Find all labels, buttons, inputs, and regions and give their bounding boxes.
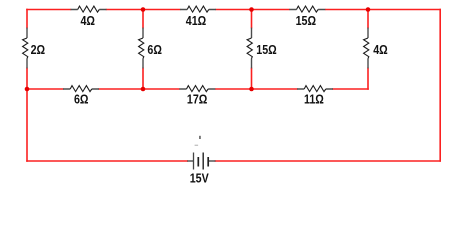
resistor R6 17ohm (middle center) [179,86,215,107]
wire left vertical lower [26,68,28,89]
svg-text:11Ω: 11Ω [304,93,324,107]
wire branch x143 lower [142,68,144,89]
svg-text:41Ω: 41Ω [186,14,206,28]
battery minus mark [195,145,199,146]
node D (mid x143) [141,87,146,92]
svg-text:15V: 15V [190,172,209,186]
wire top-left to R1 [27,9,70,11]
resistor R9 15ohm (branch x251.5) [247,28,277,69]
resistor R7 11ohm (middle right) [297,86,333,107]
svg-text:4Ω: 4Ω [80,14,95,28]
wire bottom left to battery [27,160,187,162]
battery V1 15V [187,153,215,170]
battery value label 15V [190,172,209,186]
resistor R1 4ohm (top left) [71,6,107,28]
wire left vertical to bottom [26,89,28,161]
svg-text:17Ω: 17Ω [187,93,207,107]
wire R6 to node E [216,88,297,90]
svg-text:15Ω: 15Ω [296,14,316,28]
wire branch x368 lower [367,68,369,89]
node C (mid left) [25,87,30,92]
svg-text:6Ω: 6Ω [74,93,89,107]
wire left vertical upper [26,10,28,28]
svg-text:15Ω: 15Ω [256,43,276,57]
wire battery to bottom right [216,160,441,162]
node E (mid x251.5) [249,87,254,92]
battery polarity tick [199,136,201,139]
wire R3 to top-right corner [326,9,440,11]
resistor R4 2ohm (left branch) [23,28,46,69]
svg-text:4Ω: 4Ω [373,43,388,57]
wire branch x368 upper [367,10,369,28]
resistor R3 15ohm (top right) [289,6,325,28]
svg-text:6Ω: 6Ω [147,43,162,57]
wire R5 to node D [99,88,179,90]
svg-text:2Ω: 2Ω [31,43,46,57]
resistor R5 6ohm (middle left) [63,86,99,107]
node F (top x368) [366,7,371,12]
wire R7 to corner x368 [333,88,368,90]
wire right vertical [439,10,441,162]
wire R1 to node A [107,9,180,11]
wire branch x143 upper [142,10,144,28]
resistor R10 4ohm (branch x368) [364,28,388,69]
wire R2 to node B [216,9,288,11]
wire branch x251.5 upper [251,10,253,28]
node A (top x143) [141,7,146,12]
node B (top x251.5) [249,7,254,12]
wire mid node C to R5 [27,88,63,90]
wire branch x251.5 lower [251,68,253,89]
resistor R2 41ohm (top middle) [180,6,216,28]
resistor R8 6ohm (branch x143) [139,28,162,69]
